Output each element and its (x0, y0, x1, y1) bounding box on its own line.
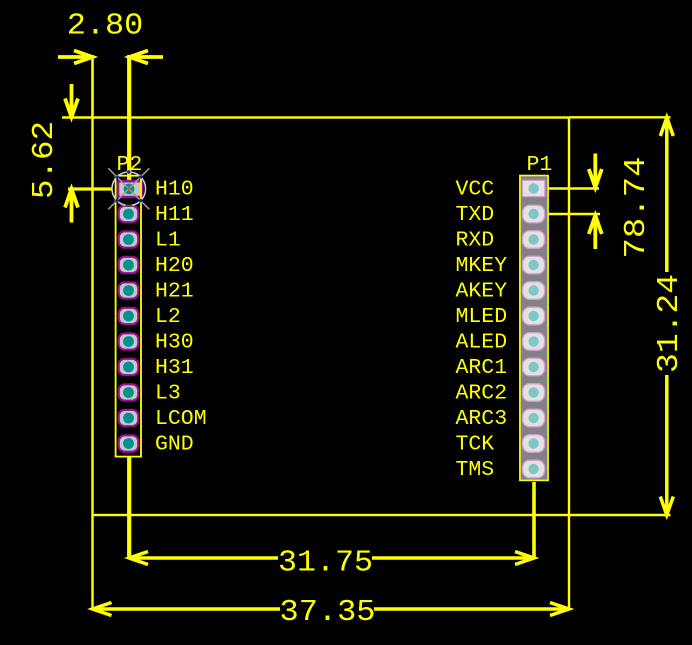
svg-text:RXD: RXD (456, 229, 495, 253)
svg-text:ARC1: ARC1 (456, 356, 508, 380)
dimension 2.80 right arrow (130, 51, 164, 64)
dimension 31.24 ext line top (570, 116, 671, 118)
svg-text:TCK: TCK (456, 433, 495, 457)
extension line board right edge down (568, 515, 570, 610)
svg-text:ARC2: ARC2 (456, 382, 508, 406)
svg-text:MLED: MLED (456, 305, 508, 329)
P1 pad 7 ALED (523, 333, 545, 351)
P2 pad 9 L3 (119, 384, 139, 400)
dimension 31.24 ext line bottom (570, 514, 671, 516)
board outline (93, 118, 570, 516)
svg-text:MKEY: MKEY (456, 254, 508, 278)
svg-text:L1: L1 (155, 229, 181, 253)
dimension 31.75 line right segment with right arrow (372, 552, 534, 565)
dimension 31.75 line left segment with left arrow (129, 552, 278, 565)
P2 pad 6 L2 (119, 308, 139, 324)
P1 pad 12 TMS (523, 460, 545, 478)
P1 pad 11 TCK (523, 435, 545, 453)
P1 pad 4 MKEY (523, 256, 545, 274)
P1 pad 1 VCC (square) (522, 180, 544, 196)
connector P2 outline (116, 176, 141, 457)
dimension 37.35 line left segment with left arrow (93, 603, 281, 616)
P2 pad 8 H31 (119, 359, 139, 375)
P1 pad 10 ARC3 (523, 409, 545, 427)
svg-text:GND: GND (155, 433, 194, 457)
dimension 78.74 ext line TXD (548, 213, 600, 216)
P1 pad 5 AKEY (523, 282, 545, 300)
P2 pad 5 H21 (119, 282, 139, 298)
svg-text:H30: H30 (155, 331, 194, 355)
svg-text:31.75: 31.75 (278, 546, 373, 581)
svg-text:TXD: TXD (456, 203, 495, 227)
P2 pad 3 L1 (119, 231, 139, 247)
connector P1 body (520, 176, 548, 481)
P1 pad 2 TXD (523, 205, 545, 223)
svg-text:H21: H21 (155, 280, 194, 304)
extension line H10 pad center left (68, 187, 113, 190)
svg-text:L2: L2 (155, 305, 181, 329)
extension line board top edge left (62, 116, 93, 118)
extension line pin column P2 down to pad (127, 55, 131, 189)
dimension 37.35 line right segment with right arrow (374, 603, 569, 616)
svg-text:AKEY: AKEY (456, 280, 508, 304)
P1 pad 6 MLED (523, 307, 545, 325)
svg-text:ARC3: ARC3 (456, 407, 508, 431)
P2 pad 7 H30 (119, 333, 139, 349)
P2 pad 2 H11 (119, 206, 139, 222)
svg-text:5.62: 5.62 (27, 121, 62, 199)
P2 pad 1 H10 (square) (118, 181, 142, 197)
dimension 31.24 line upper segment with up arrow (660, 118, 673, 273)
svg-text:TMS: TMS (456, 458, 495, 482)
P1 pad 9 ARC2 (523, 384, 545, 402)
svg-text:LCOM: LCOM (155, 407, 207, 431)
dimension 5.62 down arrow (65, 84, 78, 117)
extension line board left edge down (91, 515, 93, 610)
extension line board left edge up (91, 55, 94, 118)
svg-text:H11: H11 (155, 203, 194, 227)
svg-text:31.24: 31.24 (652, 274, 687, 373)
P1 pad 8 ARC1 (523, 358, 545, 376)
P1 pin labels (456, 178, 508, 483)
dimension 2.80 left arrow (58, 51, 93, 64)
dimension 78.74 down arrow (589, 154, 602, 188)
extension line P1 column down (532, 482, 536, 558)
P2 pad 4 H20 (119, 257, 139, 273)
svg-text:P1: P1 (527, 153, 553, 177)
svg-text:VCC: VCC (456, 178, 495, 202)
P2 pad 11 GND (119, 435, 139, 451)
dimension 78.74 ext line VCC (548, 187, 599, 190)
P1 pad 3 RXD (523, 231, 545, 249)
svg-text:L3: L3 (155, 382, 181, 406)
svg-text:ALED: ALED (456, 331, 508, 355)
P2 pin1 marker circle with X (108, 168, 149, 209)
svg-text:H20: H20 (155, 254, 194, 278)
dimension 78.74 up arrow (589, 216, 602, 250)
P2 pad 10 LCOM (119, 410, 139, 426)
extension line P2 column down (127, 458, 131, 559)
dimension 5.62 up arrow (65, 189, 78, 223)
P2 pin labels (155, 178, 207, 457)
svg-text:37.35: 37.35 (280, 595, 376, 630)
svg-text:H31: H31 (155, 356, 194, 380)
svg-text:H10: H10 (155, 178, 194, 202)
svg-text:2.80: 2.80 (67, 9, 144, 44)
dimension 31.24 line lower segment with down arrow (660, 375, 673, 515)
svg-text:78.74: 78.74 (619, 157, 654, 259)
